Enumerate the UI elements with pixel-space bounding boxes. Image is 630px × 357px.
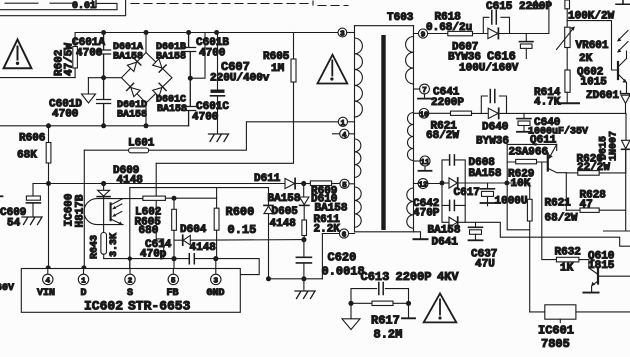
svg-text:STR-6653: STR-6653 bbox=[128, 299, 191, 314]
svg-text:D: D bbox=[81, 288, 87, 299]
capacitor C609 bbox=[32, 184, 34, 196]
svg-text:4: 4 bbox=[46, 277, 51, 285]
wire pin12 output bbox=[442, 182, 449, 184]
svg-text:68K: 68K bbox=[17, 150, 37, 162]
svg-text:2200P: 2200P bbox=[396, 270, 432, 284]
wire Q611 base down to R632 bbox=[542, 162, 557, 260]
wire dashed isolation line bbox=[131, 3, 311, 5]
stub top right corner (cut) bbox=[616, 0, 630, 4]
svg-text:47: 47 bbox=[580, 199, 593, 211]
ground transformer bottom bbox=[414, 232, 421, 239]
svg-text:D641: D641 bbox=[432, 237, 459, 249]
wire R606 node down to IC602 pin4 VIN bbox=[48, 184, 50, 269]
svg-text:4148: 4148 bbox=[117, 175, 144, 187]
wire stub under 12V node bbox=[507, 183, 530, 230]
svg-text:6: 6 bbox=[342, 232, 347, 240]
svg-text:2200P: 2200P bbox=[431, 97, 464, 109]
diode D610 BA158 bbox=[303, 184, 305, 198]
diode D608 BA158 bbox=[449, 178, 457, 188]
wire secondary 12V rail bbox=[500, 112, 626, 114]
svg-text:0.01: 0.01 bbox=[72, 1, 96, 12]
diode D601D BA158 bbox=[127, 83, 141, 97]
capacitor C601C 4700 bbox=[182, 78, 196, 126]
svg-text:R605: R605 bbox=[263, 51, 290, 63]
svg-text:2SA966: 2SA966 bbox=[509, 147, 549, 159]
svg-text:10: 10 bbox=[419, 111, 429, 119]
svg-text:D611: D611 bbox=[254, 173, 281, 185]
pin 5 FB bbox=[168, 274, 178, 284]
capacitor C617 1000U bbox=[487, 183, 489, 188]
svg-text:100U/160V: 100U/160V bbox=[459, 63, 519, 75]
wire bridge mid-left segment bbox=[88, 77, 121, 79]
ground under C620 bbox=[303, 279, 305, 291]
ground arrow (open triangle) bbox=[87, 78, 89, 94]
svg-text:0.15: 0.15 bbox=[228, 223, 257, 237]
winding secondary S1 (pin9-pin7) bbox=[406, 37, 414, 84]
warning triangle 2 bbox=[318, 55, 348, 84]
svg-text:IC602: IC602 bbox=[84, 299, 123, 314]
resistor R621 68/2W bbox=[451, 111, 472, 115]
svg-text:BA158: BA158 bbox=[469, 168, 502, 180]
capacitor top edge stub (cut) bbox=[530, 0, 543, 9]
pin 10 bbox=[419, 109, 429, 119]
svg-text:R606: R606 bbox=[19, 133, 45, 145]
wire R602 bottom to left edge bbox=[0, 77, 75, 79]
transistor Q611 collector bbox=[548, 168, 567, 172]
pin 1 D bbox=[78, 274, 88, 284]
svg-text:1: 1 bbox=[341, 120, 346, 128]
svg-text:4700: 4700 bbox=[76, 48, 102, 60]
svg-text:54: 54 bbox=[7, 218, 21, 230]
opto light arrows bbox=[113, 204, 122, 216]
svg-text:R600: R600 bbox=[226, 205, 255, 219]
bridge diamond wires bbox=[145, 33, 147, 126]
svg-text:C616: C616 bbox=[487, 50, 516, 64]
wire opto collector / inductor L602 bbox=[123, 198, 143, 200]
wire AC bottom rail bbox=[0, 125, 189, 127]
svg-text:3.3K: 3.3K bbox=[109, 233, 120, 257]
winding secondary S2 (pin10-pin11) bbox=[408, 113, 414, 161]
svg-text:4700: 4700 bbox=[52, 109, 78, 121]
svg-text:3: 3 bbox=[214, 277, 219, 285]
wire AC top rail bbox=[75, 32, 338, 34]
resistor R609 bbox=[304, 183, 311, 185]
winding primary C (pin5-pin6) bbox=[355, 187, 362, 227]
pin 5 bbox=[340, 179, 349, 188]
capacitor C619 680P (bypass over D608) bbox=[442, 160, 465, 183]
svg-text:VIN: VIN bbox=[37, 288, 55, 299]
capacitor C601A 4700 bbox=[97, 33, 111, 78]
pin 6 bbox=[339, 229, 348, 238]
svg-text:T603: T603 bbox=[387, 12, 414, 24]
transistor Q602 bbox=[617, 62, 619, 79]
pin 12 bbox=[418, 179, 428, 189]
pin 3 GND bbox=[211, 274, 221, 284]
transformer right rail bbox=[413, 26, 415, 232]
diode D601C BA158 bbox=[152, 83, 166, 97]
ground pin 11 bbox=[424, 166, 426, 170]
svg-text:C620: C620 bbox=[328, 251, 357, 265]
svg-text:680: 680 bbox=[139, 225, 159, 237]
diode D640 BYW36 bbox=[488, 108, 498, 118]
diode D615 1N007 bbox=[625, 113, 627, 140]
capacitor C601D 4700 bbox=[97, 78, 111, 126]
svg-text:470P: 470P bbox=[413, 208, 440, 220]
ground triangle (open) left of R617 bbox=[350, 303, 352, 319]
inductor L601 bbox=[84, 149, 128, 151]
wire VR601 top to Q602 base bbox=[567, 21, 617, 70]
svg-text:1M: 1M bbox=[271, 63, 285, 75]
pin 4 VIN bbox=[43, 274, 53, 284]
svg-text:BA158: BA158 bbox=[157, 104, 187, 115]
svg-text:R617: R617 bbox=[371, 314, 400, 328]
opto package arc bbox=[84, 199, 123, 225]
svg-text:H817B: H817B bbox=[75, 194, 87, 227]
ground under C607 bbox=[209, 134, 229, 142]
opto phototransistor bbox=[110, 203, 112, 220]
svg-text:7805: 7805 bbox=[541, 337, 570, 351]
svg-text:FB: FB bbox=[167, 288, 179, 299]
svg-text:R621: R621 bbox=[545, 198, 572, 210]
svg-text:22/2W: 22/2W bbox=[577, 162, 610, 174]
resistor R611 2.2K bbox=[302, 220, 307, 236]
diode D605 4148 (on FB top rail drop) bbox=[268, 188, 270, 205]
capacitor C637 47U bbox=[475, 222, 477, 226]
regulator IC601 7805 bbox=[545, 305, 576, 319]
wire VCC feedback rail bbox=[33, 183, 285, 185]
svg-text:BYW36: BYW36 bbox=[476, 136, 509, 148]
wire right edge vertical bbox=[604, 149, 630, 231]
svg-text:1000U: 1000U bbox=[495, 196, 528, 208]
ground under C609 bbox=[22, 217, 42, 225]
node bridge top bbox=[101, 30, 106, 35]
svg-text:1: 1 bbox=[81, 277, 86, 285]
pin 4 bbox=[340, 129, 349, 138]
pin 9 bbox=[418, 29, 427, 38]
wire FB / GND pins into IC602 bbox=[130, 259, 216, 269]
svg-text:10K: 10K bbox=[511, 178, 531, 190]
svg-text:5: 5 bbox=[171, 277, 176, 285]
resistor R626 22/2W bbox=[566, 172, 578, 174]
variable resistor VR601 2K bbox=[565, 27, 570, 47]
IC602 STR-6653 box bbox=[21, 269, 240, 313]
svg-text:1N007: 1N007 bbox=[609, 131, 620, 161]
svg-text:BA158: BA158 bbox=[117, 110, 147, 121]
resistor R602 47/5W bbox=[73, 47, 78, 69]
svg-text:5: 5 bbox=[342, 182, 347, 190]
ground bar right of R617 bbox=[408, 303, 410, 317]
svg-text:R632: R632 bbox=[555, 247, 581, 259]
opto LED bbox=[103, 184, 105, 191]
diode D601B BA158 bbox=[152, 58, 166, 72]
svg-text:4.7K: 4.7K bbox=[534, 97, 561, 109]
wire secondary return bbox=[465, 222, 630, 246]
resistor R606 68K bbox=[46, 123, 51, 128]
capacitor C640 1000uF/35V bbox=[523, 113, 525, 118]
svg-text:4: 4 bbox=[342, 132, 347, 140]
wire FB top rail bbox=[130, 187, 269, 189]
svg-text:9: 9 bbox=[421, 32, 426, 40]
svg-text:220U/400v: 220U/400v bbox=[210, 73, 270, 85]
svg-text:R643: R643 bbox=[90, 235, 101, 259]
transistor Q611 emitter diagonal bbox=[549, 144, 557, 158]
resistor R632 1K bbox=[556, 257, 579, 262]
resistor R628 47 bbox=[566, 209, 580, 211]
svg-text:C615 2200P: C615 2200P bbox=[486, 1, 552, 13]
svg-text:47U: 47U bbox=[475, 259, 495, 271]
svg-text:IC601: IC601 bbox=[538, 324, 574, 338]
svg-text:BA158: BA158 bbox=[428, 225, 461, 237]
diode D601A BA158 bbox=[127, 58, 141, 72]
svg-text:BA158: BA158 bbox=[156, 52, 186, 63]
svg-text:4148: 4148 bbox=[270, 218, 297, 230]
wire top-left block outer border bbox=[0, 0, 126, 16]
wire L601 to IC602 pin D bbox=[83, 150, 85, 268]
svg-text:4700: 4700 bbox=[199, 48, 225, 60]
resistor R605 680 (vertical) bbox=[173, 198, 175, 209]
svg-text:4KV: 4KV bbox=[437, 270, 459, 284]
svg-text:0.68/2u: 0.68/2u bbox=[426, 22, 472, 34]
pin 2 S bbox=[125, 274, 135, 284]
winding secondary S3 (pin12-gnd) bbox=[407, 188, 414, 228]
wire stub left edge bbox=[0, 195, 3, 197]
diode D641 BA158 bbox=[442, 205, 449, 222]
svg-text:BA158: BA158 bbox=[268, 193, 301, 205]
svg-text:D640: D640 bbox=[482, 122, 508, 134]
wire Q611 base / resistor R629 10K bbox=[507, 161, 548, 163]
optocoupler IC600 H817B bbox=[101, 181, 106, 186]
svg-text:1K: 1K bbox=[560, 263, 574, 275]
svg-text:4700: 4700 bbox=[192, 112, 218, 124]
svg-text:4148: 4148 bbox=[190, 242, 217, 254]
capacitor C641 2200P bbox=[481, 96, 506, 113]
pin 3 bbox=[338, 28, 347, 37]
capacitor C642 470P bbox=[442, 183, 465, 205]
svg-text:68/2W: 68/2W bbox=[545, 213, 578, 225]
svg-text:L601: L601 bbox=[128, 138, 155, 150]
svg-text:1015: 1015 bbox=[581, 77, 608, 89]
svg-text:VR601: VR601 bbox=[576, 40, 609, 52]
transistor Q611 base bar bbox=[547, 154, 549, 171]
pin 11 bbox=[420, 156, 430, 166]
svg-text:60V: 60V bbox=[0, 283, 14, 294]
svg-text:2: 2 bbox=[128, 277, 133, 285]
wire R605 drop to FB network bbox=[156, 163, 164, 258]
capacitor 0.01 (top-left block) bbox=[93, 0, 97, 8]
svg-text:C617: C617 bbox=[454, 187, 480, 199]
warning triangle 1 bbox=[4, 40, 32, 69]
warning triangle 3 bbox=[424, 293, 457, 322]
svg-text:S: S bbox=[127, 288, 133, 299]
wire top-left block internal bbox=[5, 2, 74, 4]
wire pin6 down to gnd rail bbox=[321, 234, 323, 279]
resistor R643 3.3K bbox=[101, 233, 107, 255]
wire collector down + R626 branch bbox=[565, 173, 567, 211]
capacitor C615 2200P bbox=[483, 17, 509, 33]
svg-text:C613: C613 bbox=[361, 270, 390, 284]
svg-text:BA158: BA158 bbox=[113, 52, 143, 63]
svg-text:3: 3 bbox=[340, 31, 345, 39]
svg-text:8.2M: 8.2M bbox=[374, 328, 403, 342]
winding primary A (pin3-pin1) bbox=[355, 38, 363, 117]
svg-text:0.0018: 0.0018 bbox=[322, 265, 365, 279]
opto light arrows (cut at right edge) bbox=[618, 31, 628, 52]
transformer left rail bbox=[354, 26, 356, 232]
resistor R621 68/2W (secondary) bbox=[529, 183, 531, 199]
winding primary B (pin4-pin5) bbox=[355, 139, 361, 177]
resistor R605 1M bbox=[293, 33, 295, 60]
zener ZD601 bbox=[621, 91, 630, 96]
wire Q611 left vertical to 12V node bbox=[506, 144, 508, 183]
svg-text:BA158: BA158 bbox=[315, 203, 348, 215]
resistor R600 0.15 bbox=[216, 188, 218, 209]
pin 7 bbox=[420, 84, 430, 94]
svg-text:GND: GND bbox=[207, 288, 225, 299]
svg-text:12: 12 bbox=[418, 182, 428, 190]
svg-text:ZD601: ZD601 bbox=[586, 90, 619, 102]
capacitor C607 220U/400v bbox=[214, 30, 219, 35]
ground pin 7 bbox=[424, 94, 426, 98]
pin 1 bbox=[338, 117, 347, 126]
wire primary ground rail bbox=[269, 278, 323, 280]
resistor R618 0.68/2u bbox=[448, 31, 473, 35]
transformer core bbox=[381, 35, 385, 230]
transformer outline top/bottom bbox=[355, 26, 414, 232]
svg-text:68/2W: 68/2W bbox=[426, 130, 459, 142]
capacitor C601B 4700 bbox=[182, 33, 196, 79]
resistor 100K/2W bbox=[565, 0, 570, 9]
svg-text:D604: D604 bbox=[180, 224, 207, 236]
wire Q611 emitter rail bbox=[507, 144, 557, 150]
svg-text:2.2K: 2.2K bbox=[314, 224, 341, 236]
capacitor C616 100U/160V bbox=[525, 34, 527, 42]
diode D607 BYW36 bbox=[488, 28, 498, 38]
svg-text:2K: 2K bbox=[579, 53, 593, 65]
resistor R614 4.7K bbox=[566, 48, 568, 71]
svg-text:D605: D605 bbox=[272, 206, 299, 218]
